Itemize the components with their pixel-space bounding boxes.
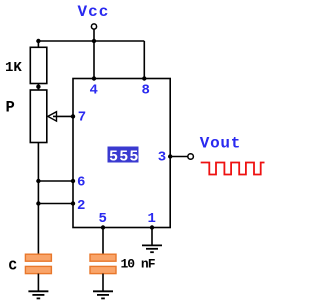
resistor 1K: [30, 47, 47, 83]
Vout terminal: [188, 154, 194, 160]
junction pin2: [71, 201, 75, 205]
IC 555 body: [73, 79, 170, 228]
wire Vcc rail: [38, 40, 144, 42]
svg-text:1K: 1K: [5, 60, 22, 76]
wire pot bottom down: [37, 143, 39, 255]
junction pin3: [168, 154, 172, 158]
wire pin6: [38, 180, 73, 182]
svg-text:C: C: [9, 259, 18, 275]
capacitor C plate bottom: [25, 266, 51, 273]
ground below 10nF: [93, 291, 113, 298]
wire wiper to pin7: [53, 115, 73, 117]
svg-text:7: 7: [78, 109, 86, 125]
pot wiper arrow: [48, 112, 57, 121]
svg-text:555: 555: [109, 149, 140, 166]
svg-text:1: 1: [148, 211, 156, 227]
junction pin8: [142, 76, 146, 80]
ground below pin1: [142, 245, 162, 252]
svg-text:8: 8: [142, 83, 150, 99]
wire Vcc drop: [93, 29, 95, 41]
wire resistor stub: [37, 41, 39, 47]
svg-text:6: 6: [77, 175, 85, 191]
svg-text:5: 5: [99, 211, 107, 227]
555 label box: [108, 147, 140, 166]
svg-text:4: 4: [90, 83, 98, 99]
junction pin6: [71, 179, 75, 183]
svg-text:2: 2: [77, 198, 85, 214]
wire pin2: [38, 203, 73, 205]
svg-text:Vout: Vout: [200, 134, 241, 152]
capacitor 10nF plate top: [90, 254, 116, 261]
potentiometer P: [30, 90, 47, 143]
junction left-pin6: [36, 179, 40, 183]
wire pin8 drop: [143, 41, 145, 79]
wire 10nF to ground: [102, 274, 104, 292]
capacitor C plate top: [25, 254, 51, 261]
output waveform: [201, 163, 265, 175]
junction resistor-pot: [36, 85, 40, 89]
junction pin7: [71, 114, 75, 118]
junction rail-Vcc: [92, 39, 96, 43]
junction rail-left: [36, 39, 40, 43]
junction left-pin2: [36, 201, 40, 205]
wire pin5 drop: [102, 228, 104, 255]
Vcc terminal: [91, 24, 96, 29]
junction pin4: [92, 76, 96, 80]
wire pin3 out: [170, 156, 188, 158]
svg-text:10 nF: 10 nF: [121, 256, 156, 271]
wire resistor-pot: [37, 84, 39, 91]
svg-text:3: 3: [158, 150, 166, 166]
capacitor 10nF plate bottom: [90, 266, 116, 273]
svg-text:P: P: [6, 99, 15, 117]
wire pin1 drop: [151, 228, 153, 246]
junction pin1: [150, 225, 154, 229]
wire C to ground: [37, 274, 39, 292]
svg-text:Vcc: Vcc: [78, 3, 110, 21]
ground below C: [28, 291, 48, 298]
junction pin5: [101, 225, 105, 229]
wire pin4 drop: [93, 41, 95, 79]
